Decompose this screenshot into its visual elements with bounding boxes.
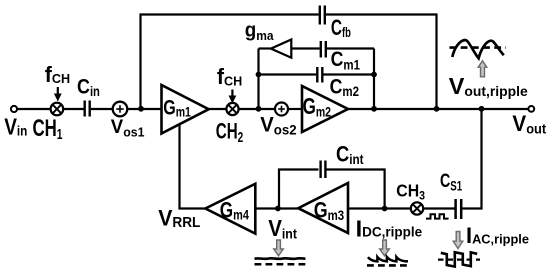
svg-text:Cm1: Cm1: [331, 47, 360, 72]
Vout ripple waveform: [450, 40, 507, 58]
chopper CH1: [51, 103, 64, 116]
label Vint: [268, 215, 297, 242]
svg-text:CH1: CH1: [33, 115, 63, 142]
Vint waveform: [255, 258, 307, 264]
label IDC,ripple: [356, 215, 423, 241]
wire: Gm4 input to Gm3 tip (node at 277.8): [255, 207, 298, 209]
op-amp Gm1: [162, 85, 209, 134]
svg-text:CH2: CH2: [216, 120, 243, 146]
wire: Cm1 to right vertical: [327, 47, 374, 49]
wire: input to CH1: [17, 108, 51, 110]
label Vout,ripple: [449, 73, 528, 99]
svg-text:Vin: Vin: [4, 115, 27, 140]
wire: Cin to Vos1: [91, 108, 113, 110]
capacitor Cin: [85, 101, 90, 117]
clock symbol after CH3: [426, 214, 449, 218]
node I (Cint right): [382, 206, 388, 212]
label Cfb: [331, 16, 351, 40]
IDC down arrow: [380, 240, 390, 256]
label CS1: [440, 169, 462, 194]
svg-text:Vint: Vint: [268, 215, 297, 242]
wire: Cm2 row right: [323, 73, 374, 75]
wire: Cm2 row left: [259, 73, 317, 75]
label Vos2: [260, 113, 297, 138]
input terminal: [11, 106, 17, 112]
node D (Cm2 right): [371, 72, 377, 78]
label Gm1: [163, 96, 191, 120]
label Gm3: [314, 199, 344, 223]
wire: Cfb top loop right: [326, 15, 437, 110]
svg-text:Vout,ripple: Vout,ripple: [449, 73, 528, 99]
summing node Vos1: [113, 102, 128, 117]
wire: gma row left stub: [259, 47, 272, 49]
wire: inner loop right vertical: [373, 49, 375, 110]
fCH arrow 2: [229, 90, 237, 104]
label Cint: [336, 143, 364, 167]
svg-text:fCH: fCH: [217, 64, 242, 89]
capacitor Cfb: [320, 6, 325, 25]
IAC down arrow: [453, 232, 463, 249]
wire: Gm1 out to CH2: [209, 108, 227, 110]
wire: Gm2 out to Vout terminal: [348, 108, 529, 110]
label fCH 1: [45, 62, 70, 87]
svg-text:Cm2: Cm2: [330, 75, 359, 99]
label Cm1: [331, 47, 360, 72]
label Gm4: [220, 199, 249, 224]
svg-text:Vos2: Vos2: [260, 113, 297, 138]
wire: gma to Cm1: [291, 47, 319, 49]
node G (RRL tap): [479, 106, 485, 112]
wire: inner loop left vertical: [257, 49, 259, 110]
wire: CH3 to CS1: [423, 207, 454, 209]
wire: CS1 to right vertical up to output: [462, 109, 481, 209]
node E (Gm2 out): [371, 106, 377, 112]
chopper CH2: [226, 103, 238, 115]
capacitor Cint: [321, 161, 326, 179]
label IAC,ripple: [466, 223, 529, 248]
svg-text:CS1: CS1: [440, 169, 462, 194]
svg-text:gma: gma: [245, 19, 275, 43]
svg-text:Cfb: Cfb: [331, 16, 351, 40]
svg-text:IDC,ripple: IDC,ripple: [356, 215, 423, 241]
svg-text:Vos1: Vos1: [111, 117, 145, 140]
node C (Cm2 left): [256, 72, 262, 78]
capacitor CS1: [456, 199, 462, 219]
svg-text:Cin: Cin: [77, 75, 100, 99]
label Cm2: [330, 75, 359, 99]
IAC chopped waveform: [438, 252, 480, 266]
svg-text:Cint: Cint: [336, 143, 364, 167]
summing node Vos2: [275, 103, 288, 116]
label Vout: [512, 112, 546, 137]
node A (Cfb tap): [138, 106, 144, 112]
label Cin: [77, 75, 100, 99]
wire: CH1 to Cin: [63, 108, 83, 110]
label Gm2: [303, 95, 331, 120]
op-amp Gm4: [205, 184, 255, 234]
wire: CH2 to Vos2 (node at 258.5): [239, 108, 275, 110]
label Vos1: [111, 117, 145, 140]
capacitor Cm1: [321, 41, 326, 58]
node F (Cfb right tap): [434, 106, 440, 112]
output terminal Vout: [528, 106, 534, 112]
label fCH 2: [217, 64, 242, 89]
label gma: [245, 19, 275, 43]
svg-text:IAC,ripple: IAC,ripple: [466, 223, 529, 248]
wire: RRL horizontal to Gm4 tip: [178, 207, 205, 209]
wire: Cint loop right: [327, 170, 385, 209]
IDC sawtooth waveform: [367, 257, 409, 265]
chopper CH3: [411, 202, 423, 214]
label CH2: [216, 120, 243, 146]
label CH3: [396, 180, 425, 202]
svg-text:CH3: CH3: [396, 180, 425, 202]
node B (after CH2): [256, 106, 262, 112]
op-amp Gm3: [298, 183, 348, 233]
svg-text:Vout: Vout: [512, 112, 546, 137]
wire: RRL vertical from Gm1 bottom: [178, 124, 180, 208]
fCH arrow 1: [54, 87, 62, 102]
op-amp gma: [271, 40, 291, 58]
label CH1: [33, 115, 63, 142]
label VRRL: [158, 205, 201, 231]
Vint down arrow: [274, 240, 284, 256]
wire: Cint loop left: [279, 170, 319, 209]
Vout ripple up arrow: [478, 61, 487, 77]
capacitor Cm2: [317, 67, 322, 83]
svg-text:fCH: fCH: [45, 62, 70, 87]
node H (Cint left): [275, 206, 281, 212]
label Vin: [4, 115, 27, 140]
wire: Cfb top loop left+top: [141, 15, 319, 110]
op-amp Gm2: [302, 86, 348, 132]
wire: Vos1 to Gm1 (node at 141): [127, 108, 161, 110]
wire: Vos2 to Gm2: [288, 108, 302, 110]
wire: Gm3 input to CH3 (node at 384.6): [348, 207, 411, 209]
